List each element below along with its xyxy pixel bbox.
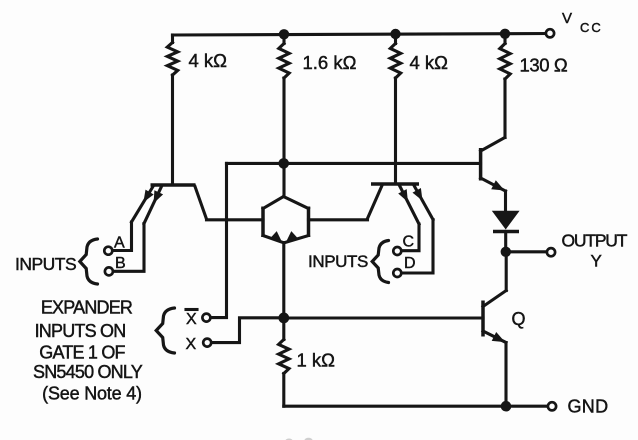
svg-text:CC: CC (580, 20, 603, 35)
label EXPANDER INPUTS ON GATE 1 OF SN5450 ONLY (See Note 4) (33, 298, 143, 404)
svg-text:1.6 kΩ: 1.6 kΩ (303, 52, 357, 73)
svg-text:X: X (186, 336, 197, 353)
wire emitter A to terminal A (112, 222, 132, 251)
transistor Q2B phase splitter right (284, 197, 309, 244)
svg-text:X: X (186, 311, 197, 328)
svg-text:GATE 1 OF: GATE 1 OF (39, 343, 125, 363)
wire emitter C to terminal C (401, 224, 419, 251)
junction dot emitter node (278, 313, 289, 324)
resistor R3 4 kOhm (390, 34, 400, 78)
svg-text:4 kΩ: 4 kΩ (410, 52, 449, 73)
junction dot output node (501, 247, 511, 257)
wire R4 to Q4 collector (503, 79, 506, 138)
terminal Xbar (202, 314, 210, 322)
svg-text:4 kΩ: 4 kΩ (189, 50, 228, 71)
wire Q emitter to GND (504, 343, 507, 407)
svg-text:B: B (115, 255, 126, 272)
svg-text:EXPANDER: EXPANDER (41, 298, 133, 318)
transistor Q3 multi-emitter input (C,D) (368, 184, 434, 224)
junction dot node rail-R2 (279, 29, 289, 39)
svg-text:V: V (562, 10, 572, 27)
svg-text:C: C (403, 234, 415, 251)
terminal OUTPUT Y (547, 248, 555, 256)
wire collector node to top transistor base (227, 162, 481, 165)
wire phase splitter emitters to node (282, 243, 285, 319)
svg-text:GND: GND (568, 397, 609, 417)
svg-text:Y: Y (591, 252, 602, 271)
wire Q3 collector to phase-splitter right base (309, 218, 368, 221)
transistor Q4 output top (481, 138, 506, 192)
brace inputs A,B (80, 239, 98, 284)
wire output node to Q collector (505, 252, 508, 291)
svg-text:SN5450 ONLY: SN5450 ONLY (33, 362, 143, 382)
svg-text:OUTPUT: OUTPUT (562, 231, 628, 251)
transistor Q1 multi-emitter input (A,B) (132, 185, 207, 224)
brace inputs C,D (372, 241, 388, 283)
resistor R1 4 kOhm (167, 35, 177, 75)
svg-text:A: A (114, 235, 125, 252)
wire emitter B to terminal B (113, 224, 144, 272)
transistor Q output bottom (483, 291, 506, 343)
wire R3 to Q3 base (394, 78, 397, 183)
svg-text:130 Ω: 130 Ω (520, 55, 568, 76)
terminal A (104, 247, 112, 255)
svg-text:D: D (404, 255, 416, 272)
wire Xbar riser (211, 163, 227, 317)
terminal X (203, 339, 211, 347)
svg-text:INPUTS: INPUTS (15, 254, 76, 274)
diode D1 (492, 211, 520, 252)
terminal D (393, 269, 401, 277)
wire GND rail (284, 405, 548, 408)
transistor Q2A phase splitter left (263, 197, 284, 244)
wire R1 to Q1 base (171, 75, 174, 184)
svg-text:INPUTS ON: INPUTS ON (35, 321, 126, 341)
svg-text:INPUTS: INPUTS (308, 252, 368, 271)
terminal GND (548, 402, 556, 410)
wire output node to terminal Y (506, 250, 547, 253)
wire R2 to phase splitter collectors (282, 78, 285, 197)
terminal B (105, 267, 113, 275)
node phase-splitter collector junction (278, 158, 289, 169)
resistor R5 1 kOhm (279, 318, 289, 406)
junction dot node rail-R4 (500, 29, 510, 39)
wire Q1 collector to phase-splitter left base (207, 218, 264, 221)
wire X input to emitter node (211, 318, 284, 343)
brace expander inputs (156, 308, 174, 353)
svg-text:(See Note 4): (See Note 4) (42, 384, 142, 404)
wire emitter node to Q base (284, 316, 483, 319)
label OUTPUT Y (562, 231, 628, 271)
label Xbar (186, 310, 197, 329)
wire Q4 emitter to diode (504, 191, 507, 212)
resistor R2 1.6 kOhm (279, 34, 289, 78)
svg-text:Q: Q (512, 309, 526, 329)
terminal VCC (546, 29, 554, 37)
junction dot node rail-R3 (390, 29, 400, 39)
terminal C (393, 247, 401, 255)
faint scan artifact bottom caption remnant (286, 438, 313, 440)
resistor R4 130 Ohm (500, 34, 510, 79)
wire VCC top rail (173, 34, 550, 36)
label VCC (562, 10, 603, 35)
junction dot GND node (501, 401, 512, 412)
svg-text:1 kΩ: 1 kΩ (297, 350, 336, 371)
wire emitter D to terminal D (401, 220, 433, 274)
